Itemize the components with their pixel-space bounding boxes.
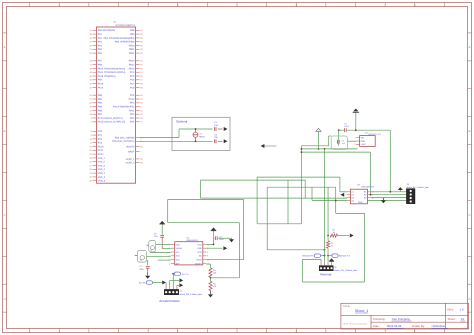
- resistor R4 10k: [209, 278, 217, 291]
- wire ls row3: [200, 197, 347, 199]
- svg-text:SDA: SDA: [176, 255, 181, 258]
- wire bus a: [301, 136, 331, 146]
- svg-text:2: 2: [345, 194, 346, 197]
- svg-text:NOTE: Browser EasyEDA: NOTE: Browser EasyEDA: [343, 323, 368, 326]
- port arrow header pin2: [179, 278, 183, 282]
- junction remote top: [327, 235, 329, 237]
- gnd flag c8: [229, 238, 234, 242]
- svg-text:Molex_4P_2.54mm_4pin: Molex_4P_2.54mm_4pin: [407, 186, 429, 189]
- svg-text:11: 11: [207, 243, 209, 246]
- svg-text:PA2: PA2: [98, 37, 103, 40]
- wire bus vertical: [300, 146, 302, 224]
- svg-text:NRST: NRST: [128, 150, 135, 153]
- svg-text:1k: 1k: [333, 231, 335, 234]
- svg-text:Optional: Optional: [176, 120, 188, 124]
- transistor Q2: [135, 251, 147, 263]
- svg-text:D: D: [469, 298, 471, 301]
- date cell: [373, 324, 448, 328]
- svg-text:Company:: Company:: [373, 317, 386, 321]
- wire OSC_OUT: [140, 140, 223, 142]
- svg-text:VDDIO: VDDIO: [176, 247, 183, 250]
- svg-text:8: 8: [207, 255, 208, 258]
- junction pullup mid: [210, 277, 212, 279]
- wire accel row3: [206, 259, 243, 261]
- svg-text:PC7: PC7: [130, 83, 135, 86]
- svg-text:2024-04-09: 2024-04-09: [387, 324, 402, 328]
- wire remote rx drop: [324, 149, 326, 256]
- vcc flag accel right: [211, 228, 217, 231]
- svg-text:Remote TX: Remote TX: [339, 255, 351, 258]
- svg-text:PB15: PB15: [129, 67, 135, 70]
- svg-text:PC8: PC8: [130, 86, 135, 89]
- junction vcc header: [389, 191, 391, 193]
- junction crystal bottom: [195, 140, 197, 142]
- svg-text:PC15-OSC32_OUT(PC15): PC15-OSC32_OUT(PC15): [98, 121, 126, 124]
- svg-text:10uF: 10uF: [344, 125, 349, 128]
- svg-text:10k: 10k: [213, 271, 216, 274]
- svg-text:Remote RX: Remote RX: [302, 255, 314, 258]
- svg-text:1/1: 1/1: [461, 317, 465, 321]
- svg-text:PA10: PA10: [98, 83, 104, 86]
- capacitor C6 10u: [154, 233, 164, 249]
- svg-text:PD2: PD2: [130, 102, 135, 105]
- company cell: [373, 317, 412, 321]
- svg-text:Acc Tx: Acc Tx: [182, 273, 190, 276]
- junction bus b left: [301, 148, 303, 150]
- wire accel header pin4: [177, 284, 179, 286]
- svg-text:PD4: PD4: [130, 117, 135, 120]
- svg-text:VDD_1: VDD_1: [98, 172, 106, 175]
- svg-text:Drawn By:: Drawn By:: [412, 324, 425, 328]
- capacitor C8: [214, 235, 232, 241]
- svg-text:christopher: christopher: [432, 324, 446, 328]
- wire accel vcc: [162, 248, 171, 250]
- capacitor C2 22p: [214, 133, 218, 143]
- svg-text:PA13 JTMS/SWDIO(PA13): PA13 JTMS/SWDIO(PA13): [98, 67, 126, 70]
- svg-text:PA6: PA6: [98, 52, 103, 55]
- vcc flag remote: [329, 258, 334, 262]
- svg-text:PB10: PB10: [129, 44, 135, 47]
- capacitor C_in box: [331, 136, 347, 149]
- optional box: [172, 117, 230, 150]
- wire remote r drop: [327, 187, 329, 235]
- svg-text:PC5: PC5: [130, 75, 135, 78]
- capacitor C_out: [344, 122, 349, 132]
- junction 3v3: [318, 148, 320, 150]
- svg-text:PC1: PC1: [98, 134, 103, 137]
- svg-text:PC4: PC4: [130, 71, 135, 74]
- svg-text:Molex_PM_2.54mm_4pin: Molex_PM_2.54mm_4pin: [334, 269, 357, 272]
- svg-text:PC12: PC12: [129, 98, 135, 101]
- connector J1 Molex 4pin: [164, 286, 202, 296]
- svg-text:PA9: PA9: [98, 79, 103, 82]
- port arrow OSC_OUT: [224, 139, 228, 143]
- svg-text:PB5: PB5: [98, 106, 103, 109]
- wire cin drop: [338, 130, 340, 146]
- junction h6: [324, 249, 326, 251]
- wire net h8: [257, 223, 301, 225]
- svg-text:2: 2: [169, 247, 170, 250]
- wire net b: [200, 180, 305, 198]
- wire vcc drop right: [389, 130, 391, 192]
- resistor R2 2k: [326, 236, 334, 256]
- title block: [341, 303, 469, 329]
- wire accel int2: [206, 247, 222, 249]
- svg-text:VIN: VIN: [361, 137, 365, 140]
- wire net h5: [168, 223, 240, 278]
- svg-text:PD1 OSC_OUT(PD1): PD1 OSC_OUT(PD1): [112, 140, 134, 143]
- svg-text:3: 3: [345, 196, 346, 199]
- svg-text:PA14 JTCK/SWCLK(PA14): PA14 JTCK/SWCLK(PA14): [98, 71, 126, 74]
- capacitor C7 100n: [139, 260, 150, 272]
- svg-text:RESET: RESET: [195, 262, 202, 265]
- svg-text:BYP: BYP: [176, 262, 181, 265]
- svg-text:PB1: PB1: [98, 98, 103, 101]
- svg-text:PD5: PD5: [130, 121, 135, 124]
- svg-text:3: 3: [354, 137, 355, 140]
- level shifter U3: [345, 183, 374, 204]
- svg-text:2k: 2k: [331, 245, 333, 248]
- wire remote pin3: [327, 256, 329, 263]
- junction net c row4: [335, 200, 337, 202]
- svg-text:VDD: VDD: [176, 243, 181, 246]
- wire accel header pin3: [172, 274, 174, 286]
- svg-text:PB7: PB7: [98, 113, 103, 116]
- junction remote mid: [327, 255, 329, 257]
- rev cell: [448, 308, 464, 312]
- svg-text:Sheet:: Sheet:: [448, 317, 456, 321]
- svg-text:1: 1: [345, 191, 346, 194]
- svg-text:PA5: PA5: [98, 48, 103, 51]
- svg-text:PB13: PB13: [129, 60, 135, 63]
- junction vcc rail: [355, 129, 357, 131]
- svg-text:VOUT: VOUT: [361, 143, 367, 146]
- svg-text:VSS_3: VSS_3: [98, 164, 106, 167]
- svg-text:BOOT0: BOOT0: [127, 145, 136, 148]
- wire accel vdd row: [156, 243, 171, 245]
- wire remote pin1: [320, 260, 322, 263]
- wire accel sda: [150, 252, 171, 254]
- svg-text:PC10: PC10: [98, 145, 104, 148]
- svg-text:1: 1: [354, 140, 355, 143]
- svg-text:1: 1: [169, 243, 170, 246]
- port arrow acc rx: [162, 281, 166, 285]
- wire ls to header: [368, 192, 407, 201]
- svg-text:C: C: [4, 214, 6, 217]
- svg-text:PA15 JTDI(PA15): PA15 JTDI(PA15): [98, 75, 116, 78]
- svg-text:TXB0104PWR: TXB0104PWR: [361, 186, 375, 189]
- svg-text:Acc Rx: Acc Rx: [139, 282, 147, 285]
- wire bus b: [301, 148, 357, 150]
- svg-text:5: 5: [207, 247, 208, 250]
- wire net h4: [168, 200, 244, 260]
- svg-text:REV:: REV:: [448, 308, 455, 312]
- svg-text:PB6: PB6: [98, 109, 103, 112]
- svg-text:PB8: PB8: [130, 29, 135, 32]
- svg-text:9: 9: [207, 251, 208, 254]
- svg-text:GND: GND: [197, 247, 202, 250]
- svg-text:PC0: PC0: [98, 130, 103, 133]
- svg-text:TITLE:: TITLE:: [343, 305, 351, 308]
- connector J3 Molex_4P: [406, 183, 428, 204]
- svg-text:1.0: 1.0: [460, 308, 464, 312]
- junction int1: [213, 244, 215, 246]
- wire net h6: [267, 249, 324, 251]
- junction crystal top: [195, 128, 197, 130]
- svg-text:10k: 10k: [213, 285, 216, 288]
- svg-text:Date:: Date:: [373, 324, 380, 328]
- capacitor C1 22p: [214, 121, 218, 131]
- svg-text:VDD_3: VDD_3: [98, 180, 106, 183]
- svg-text:PA8: PA8: [98, 64, 103, 67]
- svg-text:PB12: PB12: [129, 52, 135, 55]
- port arrow header pin4: [179, 283, 183, 287]
- svg-text:100n: 100n: [219, 238, 223, 241]
- svg-text:3: 3: [169, 262, 170, 265]
- port arrow ls row2: [340, 193, 344, 197]
- crystal Y1 8MHz: [193, 129, 205, 141]
- wire accel header pin1: [165, 283, 167, 286]
- svg-text:VDD_2: VDD_2: [98, 176, 106, 179]
- svg-text:VSS_4: VSS_4: [98, 168, 106, 171]
- svg-text:4: 4: [345, 199, 346, 202]
- svg-text:PC11: PC11: [98, 149, 104, 152]
- resistor R3 10k: [209, 268, 217, 277]
- mcu U1: [89, 21, 143, 184]
- junction bus c left: [301, 151, 303, 153]
- wire accel scl: [147, 255, 171, 257]
- svg-text:Your Company: Your Company: [392, 317, 411, 321]
- svg-text:Molex_PM_2.54mm_4pin: Molex_PM_2.54mm_4pin: [180, 293, 203, 296]
- wire pullup tap: [211, 277, 240, 279]
- svg-text:PC6: PC6: [130, 79, 135, 82]
- svg-text:PC12: PC12: [98, 153, 104, 156]
- wire net b hang: [287, 180, 289, 224]
- net flag Remote RX: [302, 254, 324, 258]
- svg-text:GND: GND: [361, 140, 366, 143]
- vcc flag accel left: [159, 221, 165, 235]
- regulator U4 AMS1117: [354, 132, 381, 147]
- svg-text:GND: GND: [358, 201, 363, 204]
- svg-text:PC9: PC9: [130, 94, 135, 97]
- wire vcc rail: [339, 129, 391, 131]
- wire OSC_IN: [140, 129, 223, 138]
- svg-text:PA11: PA11: [129, 109, 135, 112]
- svg-text:PB0: PB0: [98, 94, 103, 97]
- net flag Acc Tx: [173, 272, 189, 276]
- svg-text:8MHz: 8MHz: [199, 135, 204, 138]
- svg-text:PC14-OSC32_IN(PC14): PC14-OSC32_IN(PC14): [98, 117, 123, 120]
- svg-text:2: 2: [354, 143, 355, 146]
- svg-text:PB9: PB9: [130, 33, 135, 36]
- transistor Q1: [147, 241, 156, 252]
- svg-text:PD0 OSC_IN(PD0): PD0 OSC_IN(PD0): [115, 136, 135, 139]
- net flag Acc Rx: [139, 281, 162, 285]
- svg-text:PA1: PA1: [98, 33, 103, 36]
- junction cap cout left: [338, 129, 340, 131]
- svg-text:A: A: [4, 46, 6, 49]
- svg-text:VSS_2: VSS_2: [98, 161, 106, 164]
- net flag 3V3 gray arrow: [316, 128, 321, 149]
- svg-text:C: C: [469, 214, 471, 217]
- wire accel int1: [206, 231, 213, 245]
- svg-text:PC2: PC2: [98, 138, 103, 141]
- junction remote rx: [324, 255, 326, 257]
- junction acc tx: [172, 273, 174, 275]
- wire loop below ls: [302, 213, 364, 282]
- title text: [343, 305, 369, 313]
- svg-text:D: D: [4, 298, 6, 301]
- svg-text:VCAP_2: VCAP_2: [126, 162, 136, 165]
- wire cin to regulator: [347, 140, 356, 142]
- sheet cell: [448, 317, 466, 321]
- vcc flag header: [398, 187, 403, 192]
- junction bus b feed: [324, 148, 326, 150]
- wire accel sa0: [158, 259, 171, 261]
- gnd flag ls: [381, 198, 386, 204]
- svg-text:A: A: [469, 46, 471, 49]
- svg-text:PA12: PA12: [98, 86, 104, 89]
- svg-text:B: B: [469, 130, 471, 133]
- accelerometer U2 MMA8452Q: [169, 236, 209, 265]
- svg-text:GND2: GND2: [196, 259, 202, 262]
- port arrow OSC_IN: [224, 127, 228, 131]
- svg-text:PB4 JNTRST(PB4): PB4 JNTRST(PB4): [115, 41, 135, 44]
- port arrow left mid: [261, 144, 277, 148]
- port arrow int2: [223, 246, 227, 250]
- svg-text:PB2: PB2: [98, 102, 103, 105]
- wire bus c: [301, 152, 370, 195]
- port arrow remote: [350, 234, 354, 238]
- svg-text:B: B: [4, 130, 6, 133]
- wire net c: [267, 187, 347, 250]
- svg-text:PB11: PB11: [129, 48, 135, 51]
- svg-text:PA0 WKUP(PA0): PA0 WKUP(PA0): [98, 29, 116, 32]
- junction reg out: [370, 194, 372, 196]
- svg-text:PA4: PA4: [98, 44, 103, 47]
- gnd flag c7: [145, 272, 150, 279]
- wire accel header pin2: [170, 280, 179, 285]
- svg-text:PC3: PC3: [98, 142, 103, 145]
- wire net a: [257, 177, 347, 224]
- resistor R1 1k: [330, 229, 349, 238]
- svg-text:VCAP_1: VCAP_1: [126, 158, 136, 161]
- svg-text:PA3: PA3: [98, 41, 103, 44]
- gnd flag pullup: [208, 291, 213, 298]
- svg-text:Remote: Remote: [320, 272, 331, 276]
- svg-text:PB3 JTDO/TRACESWO(PB3): PB3 JTDO/TRACESWO(PB3): [104, 37, 135, 40]
- vcc flag top: [353, 109, 359, 131]
- svg-text:PC13-TAMPER-RTC: PC13-TAMPER-RTC: [113, 106, 135, 109]
- svg-text:PB14: PB14: [129, 64, 135, 67]
- wire accel sda pullup: [206, 264, 210, 268]
- connector J2 Molex 4pin: [319, 262, 357, 272]
- svg-text:Sheet_1: Sheet_1: [355, 309, 368, 313]
- svg-text:VSS_1: VSS_1: [98, 157, 106, 160]
- svg-text:PA7: PA7: [98, 60, 103, 63]
- svg-text:Accelerometer: Accelerometer: [159, 299, 180, 303]
- net flag Remote TX: [328, 254, 350, 258]
- wire remote pin2: [324, 256, 326, 263]
- svg-text:PD3: PD3: [130, 113, 135, 116]
